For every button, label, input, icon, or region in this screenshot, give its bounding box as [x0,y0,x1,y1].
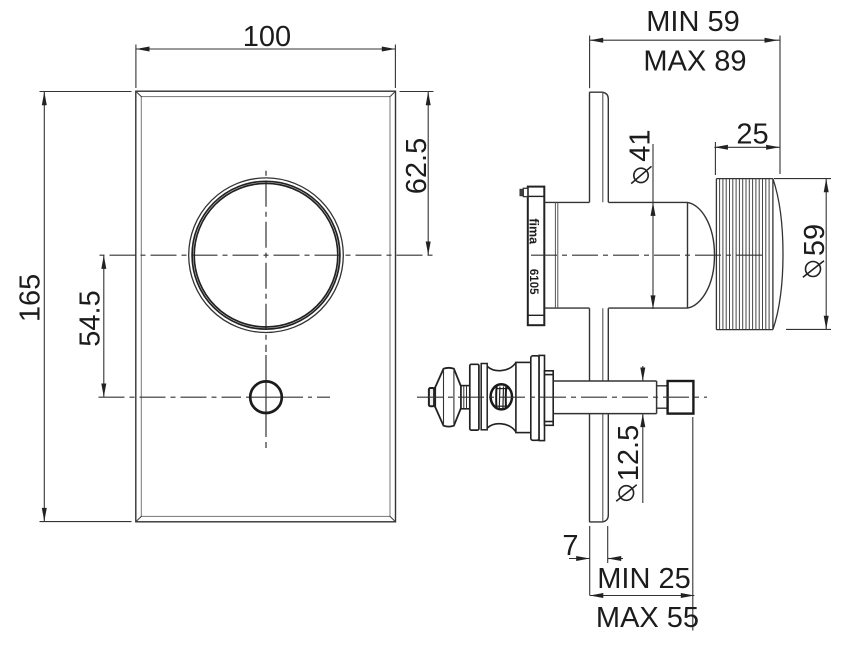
centerline horizontal big circle [99,254,434,256]
dim phi59 [774,179,831,330]
dim phi12.5 [642,366,644,503]
dim 100 top [136,45,396,89]
svg-text:MAX 55: MAX 55 [596,602,699,634]
svg-text:6105: 6105 [527,269,539,295]
small circle [250,381,282,413]
svg-text:MIN 59: MIN 59 [646,6,739,38]
valve body cylinder [544,202,687,308]
handle screw ellipse [491,384,512,409]
dome behind knob [688,202,715,308]
plate outer rectangle [136,91,396,522]
svg-text:25: 25 [736,118,768,150]
dim 165 left [40,92,132,522]
dim phi41 [652,144,654,309]
svg-text:100: 100 [243,21,291,53]
svg-text:fima: fima [526,218,540,245]
handle collar disc 1 [470,364,479,430]
svg-text:54.5: 54.5 [75,290,107,346]
step cylinder [545,371,554,426]
handle neck rings [461,386,470,409]
spindle neck [657,386,668,408]
handle bicone [435,368,461,427]
svg-text:165: 165 [15,274,47,322]
svg-text:41: 41 [624,129,656,161]
centerline lower assembly [417,396,707,398]
spindle end block [668,381,694,414]
handle disc B2 [531,356,539,441]
body groove ring [554,203,556,308]
knurl lines [720,179,770,330]
dim 25 knob [714,142,779,175]
knurled knob [716,179,783,330]
dim MIN 59 / MAX 89 [590,36,780,175]
big circle outer [189,178,344,333]
svg-text:7: 7 [562,530,578,562]
valve body flange [528,187,545,326]
handle disc B1 [516,362,531,432]
svg-text:59: 59 [799,224,831,256]
dim 62.5 right [400,92,434,256]
wall plate inner bevel line [602,92,604,521]
svg-text:MAX 89: MAX 89 [643,45,746,77]
svg-text:MIN 25: MIN 25 [597,563,690,595]
handle spool waist [487,362,516,370]
handle end cap disc [539,355,544,440]
centerline upper assembly [531,254,766,256]
dim 54.5 [103,255,105,397]
plate corner bevels [136,92,395,522]
handle tip cap [429,388,434,406]
centerline vertical through circles [265,169,267,352]
svg-text:62.5: 62.5 [401,138,433,194]
wall plate side [590,92,609,522]
centerline horizontal small circle [99,396,242,398]
handle collar disc 2 [481,364,487,430]
svg-text:12.5: 12.5 [613,425,645,481]
flange screw tab [523,188,528,196]
big circle inner ring [192,181,340,329]
spindle shaft [553,381,656,414]
dim 7 wall [569,526,623,596]
plate inner bevel rectangle [141,97,390,517]
dim MIN 25 / MAX 55 [590,417,695,631]
